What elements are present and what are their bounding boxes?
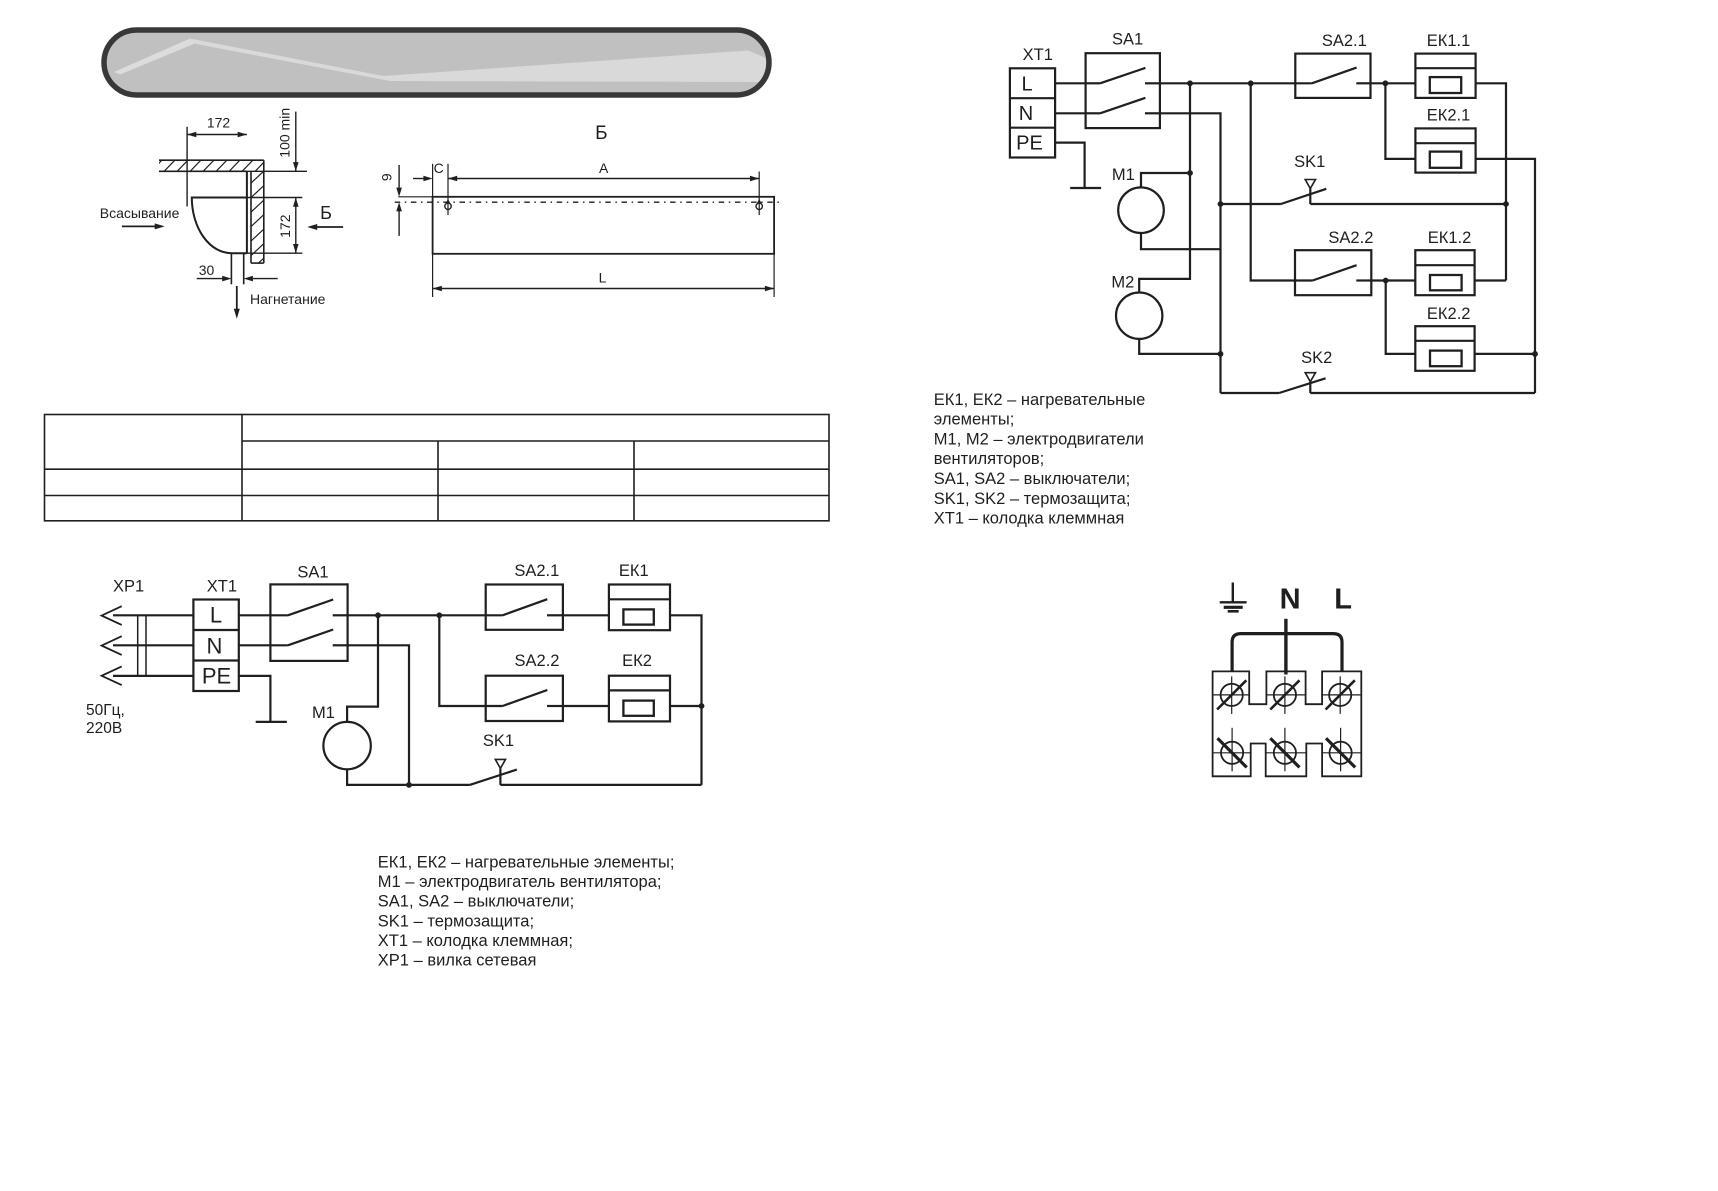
svg-text:SK1 – термозащита;: SK1 – термозащита; [378, 912, 534, 930]
svg-text:SA1, SA2 – выключатели;: SA1, SA2 – выключатели; [934, 470, 1130, 488]
svg-text:30: 30 [199, 262, 215, 278]
svg-text:N: N [1280, 584, 1301, 616]
svg-text:XT1: XT1 [207, 578, 237, 596]
junction node on L wire (SA2.2 branch) [436, 612, 442, 618]
ground [256, 721, 287, 723]
svg-text:A: A [599, 160, 609, 176]
switch SA2.2 [486, 676, 563, 721]
junction node SK1/EK1 bus (schematic 2) [1503, 201, 1509, 207]
wire XT1-PE to ground [239, 676, 271, 722]
thermal cutout SK2 [1221, 373, 1326, 393]
svg-text:SK1: SK1 [483, 732, 514, 750]
thermal cutout SK1 (schematic 2) [1221, 180, 1327, 205]
junction node L/SA2.2 branch (schematic 2) [1248, 80, 1254, 86]
wire M1 branch from L wire [347, 615, 378, 722]
wire L bus: SA1 to SA2.1 (schematic 2) [1160, 82, 1295, 84]
wire EK1.2 to right bus (schematic 2) [1475, 279, 1506, 281]
terminal centerlines top row [1213, 694, 1362, 696]
plug XP1 pin PE arrow [102, 666, 122, 685]
wire N: SA1 to right then down (schematic 2) [1160, 113, 1221, 393]
wire XP1-N to XT1 [113, 644, 193, 646]
switch SA2.2 (schematic 2) [1295, 250, 1371, 295]
wire SK2 to outer bus [1310, 392, 1535, 394]
wire XT1-N to SA1 (schematic 2) [1055, 112, 1086, 114]
wire EK2 to right bus [670, 705, 702, 707]
terminal centerlines bottom row [1213, 752, 1362, 754]
svg-text:М1, М2 – электродвигатели: М1, М2 – электродвигатели [934, 430, 1144, 448]
svg-text:L: L [1334, 584, 1352, 616]
svg-text:172: 172 [207, 115, 231, 131]
heater EK1.2 [1415, 250, 1474, 295]
junction node EK2.1 branch (schematic 2) [1383, 80, 1389, 86]
wire EK2.1 branch (schematic 2) [1385, 83, 1415, 159]
svg-text:XP1: XP1 [113, 578, 144, 596]
svg-text:172: 172 [277, 214, 293, 238]
right mounting keyhole [756, 172, 762, 216]
terminal block XT1 (schematic 2) [1010, 68, 1055, 157]
svg-text:L: L [210, 603, 222, 628]
mounting drawing: ceiling with hatching [150, 159, 280, 173]
svg-text:ЕК1.1: ЕК1.1 [1427, 32, 1471, 50]
heater EK2 [609, 676, 670, 722]
svg-text:SA2.2: SA2.2 [1328, 229, 1373, 247]
heater EK2.1 [1415, 128, 1475, 172]
svg-text:ХР1 – вилка сетевая: ХР1 – вилка сетевая [378, 952, 537, 970]
junction node M2 bottom (schematic 2) [1218, 351, 1224, 357]
junction node N/M1 bottom [406, 782, 412, 788]
svg-text:М1 – электродвигатель вентилят: М1 – электродвигатель вентилятора; [378, 873, 662, 891]
junction node L/M-column (schematic 2) [1187, 80, 1193, 86]
wire EK1 to right bus [670, 615, 702, 785]
terminal screw bottom-middle [1270, 728, 1299, 772]
ground (schematic 2) [1070, 187, 1101, 189]
section mark Б with arrow [307, 203, 343, 230]
wire SA2.1 to EK1 [563, 614, 609, 616]
svg-text:C: C [434, 160, 444, 176]
svg-text:ЕК1, ЕК2 – нагревательные элем: ЕК1, ЕК2 – нагревательные элементы; [378, 854, 675, 872]
wire M-column from L junction (schematic 2) [1139, 83, 1190, 292]
svg-text:вентиляторов;: вентиляторов; [934, 450, 1044, 468]
dimension 9 [379, 165, 433, 236]
junction node EK2.2/outer bus (schematic 2) [1532, 351, 1538, 357]
svg-text:SA1: SA1 [297, 564, 328, 582]
junction node SK1 branch (schematic 2) [1218, 201, 1224, 207]
wire SK1 to right bus [500, 784, 701, 786]
centerline (dash-dot) [395, 201, 784, 203]
wire SK1 to EK bus (schematic 2) [1310, 203, 1506, 205]
svg-text:ЕК1.2: ЕК1.2 [1428, 229, 1472, 247]
legend for schematic 1 [378, 854, 675, 970]
junction node EK2/right bus [699, 703, 705, 709]
wire EK2.2 branch (schematic 2) [1386, 281, 1416, 354]
switch SA2.1 [486, 585, 563, 630]
svg-text:ЕК1: ЕК1 [619, 562, 649, 580]
wire L: SA1 to SA2.1 [348, 614, 486, 616]
terminal block XT1 [193, 600, 238, 692]
svg-text:Нагнетание: Нагнетание [250, 291, 326, 307]
svg-text:ЕК2.2: ЕК2.2 [1427, 305, 1471, 323]
wire M1 bottom to junction [347, 769, 409, 785]
empty specification table [45, 415, 830, 521]
terminal screw top-right (L) [1326, 676, 1355, 714]
wire XT1-N to SA1 [239, 644, 271, 646]
switch SA2.1 (schematic 2) [1295, 54, 1370, 98]
svg-text:SA1: SA1 [1112, 31, 1143, 49]
junction node M1 top (schematic 2) [1187, 170, 1193, 176]
wire M1 top stub (schematic 2) [1141, 173, 1190, 187]
dimension 100 min [247, 108, 308, 171]
svg-text:PE: PE [202, 664, 231, 689]
wire XT1-PE to ground (schematic 2) [1055, 143, 1085, 188]
heater EK2.2 [1415, 326, 1474, 371]
svg-text:М1: М1 [312, 704, 335, 722]
svg-text:ЕК1, ЕК2 – нагревательные: ЕК1, ЕК2 – нагревательные [934, 391, 1146, 409]
wire EK2.2 to outer bus (schematic 2) [1475, 353, 1535, 355]
wire N: SA1 down to motor bus [348, 645, 409, 785]
motor M1 [323, 722, 370, 769]
switch SA1 (schematic 2) [1086, 53, 1160, 128]
svg-text:Всасывание: Всасывание [100, 205, 180, 221]
wire M2 bottom (schematic 2) [1139, 339, 1220, 354]
terminal block body (castellated outline) [1213, 671, 1362, 776]
wire EK1.1 to right bus (schematic 2) [1476, 83, 1506, 280]
wire XP1-PE to XT1 [113, 675, 193, 677]
dimension L [433, 254, 774, 297]
wire XT1-L to SA1 [239, 614, 271, 616]
svg-text:ХТ1 – колодка клеммная: ХТ1 – колодка клеммная [934, 510, 1125, 528]
heater EK1.1 [1415, 54, 1475, 98]
svg-text:N: N [1019, 103, 1033, 125]
mounting drawing: wall with hatching [250, 160, 265, 285]
thick wire N into middle terminal [1284, 619, 1287, 675]
svg-text:ЕК2: ЕК2 [622, 652, 652, 670]
suction label and arrow [100, 205, 180, 229]
svg-text:SA1, SA2 – выключатели;: SA1, SA2 – выключатели; [378, 893, 574, 911]
dimension 172 (width) [187, 115, 247, 207]
thick jumper wire earth to L terminal [1232, 634, 1342, 672]
svg-text:50Гц,: 50Гц, [86, 702, 125, 719]
svg-text:L: L [1021, 74, 1032, 96]
left mounting keyhole [445, 164, 451, 215]
svg-text:SA2.1: SA2.1 [514, 562, 559, 580]
motor M2 (schematic 2) [1116, 293, 1162, 339]
svg-text:PE: PE [1016, 133, 1043, 155]
terminal screw bottom-right [1326, 728, 1355, 772]
svg-text:Б: Б [320, 203, 332, 223]
section Б body [433, 197, 774, 254]
svg-text:М1: М1 [1112, 166, 1135, 184]
svg-text:N: N [207, 634, 223, 659]
svg-text:SA2.2: SA2.2 [515, 652, 560, 670]
svg-text:100 min: 100 min [277, 108, 293, 158]
wire SA2.2 to EK1.2 (schematic 2) [1371, 279, 1415, 281]
plug XP1 pin N arrow [102, 636, 122, 655]
earth symbol [1220, 583, 1247, 612]
wire M1 bottom (schematic 2) [1141, 233, 1221, 249]
terminal screw top-middle (N) [1270, 676, 1299, 714]
wire XT1-L to SA1 (schematic 2) [1055, 82, 1086, 84]
dimension 30 [197, 262, 278, 281]
wire EK2.1 to outer bus (schematic 2) [1476, 159, 1535, 393]
svg-text:SK1, SK2 – термозащита;: SK1, SK2 – термозащита; [934, 490, 1131, 508]
terminal screw top-left (earth) [1217, 676, 1246, 714]
svg-text:SK2: SK2 [1301, 349, 1332, 367]
svg-text:220В: 220В [86, 720, 122, 737]
air curtain body side view [192, 171, 247, 253]
heater EK1 [609, 585, 670, 631]
dimension A [448, 160, 759, 181]
svg-text:9: 9 [379, 173, 395, 181]
svg-text:элементы;: элементы; [934, 411, 1015, 429]
junction node on L wire (motor branch) [375, 612, 381, 618]
discharge label and arrow [234, 286, 326, 319]
svg-text:L: L [599, 270, 607, 286]
wire SA2.2 branch [439, 615, 485, 706]
dimension 172 (height) [247, 198, 302, 254]
thermal cutout SK1 [409, 759, 517, 785]
dimension C [413, 160, 444, 197]
svg-text:ЕК2.1: ЕК2.1 [1427, 107, 1471, 125]
svg-text:ХТ1 – колодка клеммная;: ХТ1 – колодка клеммная; [378, 932, 573, 950]
svg-text:М2: М2 [1111, 274, 1134, 292]
plug XP1 pin L arrow [102, 606, 122, 625]
junction node EK2.2 branch (schematic 2) [1383, 278, 1389, 284]
supply rating label 50Hz 220V [86, 702, 125, 737]
terminal screw bottom-left [1218, 728, 1247, 772]
wire SA2.1 to EK1.1 (schematic 2) [1371, 82, 1416, 84]
wire XP1-L to XT1 [113, 614, 193, 616]
wire SA2.2 to EK2 [563, 705, 609, 707]
svg-text:XT1: XT1 [1023, 46, 1053, 64]
svg-text:SK1: SK1 [1294, 153, 1325, 171]
wire SA2.2 branch from L (schematic 2) [1251, 83, 1295, 280]
cable boundary marks [138, 615, 146, 676]
svg-text:SA2.1: SA2.1 [1322, 32, 1367, 50]
svg-text:Б: Б [595, 123, 607, 144]
product housing pill logo [104, 30, 769, 95]
discharge outlet duct [231, 253, 243, 284]
legend for schematic 2 [934, 391, 1146, 528]
motor M1 (schematic 2) [1118, 187, 1164, 233]
switch SA1 [270, 584, 347, 661]
